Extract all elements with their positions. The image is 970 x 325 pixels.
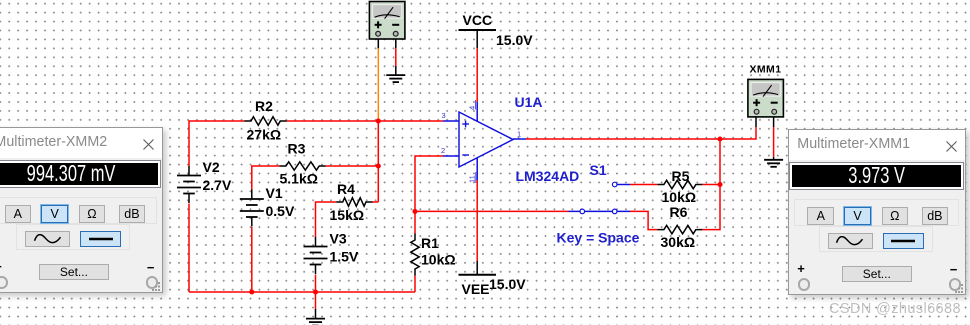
wire XMM2 ground stem: [395, 66, 397, 75]
wire node R1-top to switch pole: [415, 210, 569, 212]
node dot R2/orange junction: [376, 118, 381, 123]
wire R3 right to node: [326, 165, 379, 167]
wire switch top throw to R5: [630, 184, 657, 186]
resistor R1 (vertical): [411, 234, 419, 276]
svg-text:1.5V: 1.5V: [330, 249, 359, 265]
node dot R5 / R6 junction: [717, 182, 722, 187]
op-amp U1A triangle: [459, 112, 513, 167]
battery V1: [251, 190, 253, 200]
svg-text:U1A: U1A: [515, 94, 543, 110]
wire R1 top to op-amp pin2 corner: [415, 156, 443, 234]
svg-text:R3: R3: [288, 141, 306, 157]
switch S1 contact circle pivot: [580, 209, 585, 214]
resistor R4: [336, 198, 372, 206]
node dot R1 top / switch branch: [412, 209, 417, 214]
svg-text:15.0V: 15.0V: [496, 32, 533, 48]
resistor R5: [657, 180, 702, 188]
wire op-amp output to XMM1 + terminal: [526, 127, 756, 139]
ground under XMM2: [386, 74, 405, 76]
op-amp pin4 lead: [476, 102, 478, 122]
wire XMM1 + terminal stub: [755, 117, 757, 127]
svg-text:15.0V: 15.0V: [489, 276, 526, 292]
wire bottom-center ground stem: [315, 309, 317, 319]
node dot output net / feedback branch: [717, 136, 722, 141]
svg-text:3: 3: [442, 111, 446, 120]
wire XMM1 - terminal stub: [773, 117, 775, 127]
svg-text:R2: R2: [255, 98, 273, 114]
wire switch pole to R6: [630, 211, 657, 229]
svg-text:R5: R5: [672, 168, 690, 184]
ground under XMM1: [764, 159, 783, 161]
op-amp output pin1 lead: [513, 138, 526, 140]
svg-text:2.7V: 2.7V: [203, 177, 232, 193]
svg-text:R6: R6: [670, 204, 688, 220]
wire V1 top to R3 left: [252, 166, 280, 190]
wire vertical node line x=378: [377, 121, 379, 202]
multimeter dialog Multimeter-XMM2: [0, 127, 163, 293]
wire orange from XMM2 + terminal down to node: [377, 48, 379, 120]
svg-text:27kΩ: 27kΩ: [247, 127, 282, 143]
wire XMM2 + terminal stub: [377, 36, 379, 49]
svg-text:0.5V: 0.5V: [266, 203, 295, 219]
svg-text:VCC: VCC: [463, 12, 493, 28]
svg-text:S1: S1: [590, 162, 607, 178]
switch S1 contact circle top throw: [612, 182, 617, 187]
svg-text:15kΩ: 15kΩ: [330, 207, 365, 223]
instrument icon XMM2 (multimeter): [369, 2, 405, 40]
svg-text:V1: V1: [266, 185, 283, 201]
wire R5 right to junction: [702, 184, 720, 186]
op-amp pin2 lead: [443, 155, 459, 157]
instrument icon XMM1 (multimeter): [748, 79, 784, 117]
node dot R3 junction: [376, 163, 381, 168]
op-amp - input mark: [462, 154, 469, 156]
svg-text:VEE: VEE: [462, 281, 490, 297]
svg-text:R4: R4: [337, 181, 355, 197]
svg-text:10kΩ: 10kΩ: [421, 252, 456, 268]
wire XMM2 - red segment to ground: [395, 48, 397, 66]
wire R1 bottom lead to rail: [414, 276, 416, 293]
svg-text:XMM1: XMM1: [750, 64, 782, 76]
svg-text:1: 1: [517, 130, 521, 139]
wire top net: R2 left lead from V2 top corner: [189, 121, 245, 166]
watermark: [829, 301, 961, 317]
wire node to R4 right lead: [373, 201, 379, 203]
svg-text:30kΩ: 30kΩ: [661, 234, 696, 250]
wire V2 bottom to bottom rail: [188, 204, 190, 293]
wire VCC to op-amp pin4: [476, 48, 478, 102]
op-amp + input mark: [462, 123, 469, 125]
VEE power symbol: [459, 274, 497, 276]
svg-text:V2: V2: [203, 159, 220, 175]
battery V3: [315, 237, 317, 247]
wire op-amp pin11 to VEE: [476, 180, 478, 261]
resistor R3: [279, 162, 325, 170]
resistor R2: [245, 117, 287, 125]
node dot V3 bottom rail: [313, 289, 318, 294]
switch S1 contact circle bottom throw: [612, 209, 617, 214]
resistor R6: [657, 225, 702, 233]
op-amp pin11 lead: [476, 158, 478, 181]
switch S1 top throw segment: [617, 184, 630, 186]
wire R4 left to V3 top: [316, 202, 337, 237]
VCC power symbol: [459, 29, 497, 31]
wire bottom rail: [189, 291, 415, 293]
wire XMM2 - terminal stub: [395, 36, 397, 49]
svg-text:5.1kΩ: 5.1kΩ: [280, 171, 318, 187]
node dot V1 bottom rail: [249, 289, 254, 294]
op-amp pin3 lead: [443, 120, 459, 122]
battery V2: [188, 166, 190, 176]
wire R6 right up to output net: [702, 139, 720, 230]
wire XMM1 - red segment to ground: [773, 127, 775, 157]
svg-text:10kΩ: 10kΩ: [662, 189, 697, 205]
svg-text:V3: V3: [330, 231, 347, 247]
wire R2 right to op-amp pin3: [287, 120, 443, 122]
svg-text:2: 2: [441, 146, 445, 155]
svg-text:4: 4: [468, 106, 477, 110]
svg-text:R1: R1: [421, 235, 439, 251]
ground bottom center: [306, 318, 325, 320]
switch S1 pole wire: [569, 210, 631, 212]
svg-text:11: 11: [468, 175, 477, 183]
wire V3 bottom through rail to ground: [315, 275, 317, 310]
multimeter dialog Multimeter-XMM1: [788, 129, 966, 295]
svg-text:Key = Space: Key = Space: [557, 230, 640, 246]
wire XMM1 ground stem: [773, 157, 775, 160]
svg-text:LM324AD: LM324AD: [516, 168, 580, 184]
wire V1 bottom to bottom rail: [251, 227, 253, 292]
